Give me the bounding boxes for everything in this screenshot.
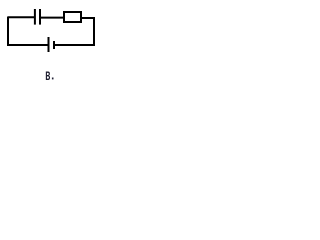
wire resistor to top-right corner [81,17,95,19]
wire left vertical [7,17,9,47]
wire right vertical [93,17,95,45]
wire bottom-right segment [55,44,96,46]
resistor R1 [64,12,81,22]
svg-text:в: в [45,65,51,84]
label в. [45,65,53,84]
capacitor C1 [35,9,40,25]
wire bottom-left segment [7,44,48,46]
battery B1 [49,37,55,52]
wire capacitor to resistor [41,17,65,19]
wire top-left segment [8,16,35,18]
